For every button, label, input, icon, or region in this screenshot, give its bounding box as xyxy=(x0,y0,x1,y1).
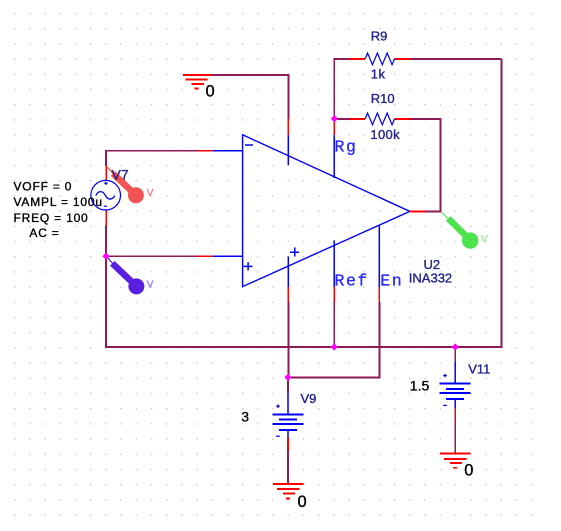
svg-text:AC =: AC = xyxy=(29,226,59,240)
op-amp minus symbol xyxy=(245,144,253,146)
svg-text:100k: 100k xyxy=(370,127,400,142)
op-amp En pin xyxy=(378,226,380,302)
svg-text:0: 0 xyxy=(206,83,215,101)
probe marker V (green, output) xyxy=(442,212,488,248)
svg-text:V11: V11 xyxy=(468,362,490,377)
svg-text:1.5: 1.5 xyxy=(410,378,430,394)
junction node B (Rg / R10) xyxy=(331,115,338,122)
op-amp U2 triangle xyxy=(243,135,410,287)
wire V7 top to minus input xyxy=(106,151,198,166)
op-amp plus input pin xyxy=(198,255,243,257)
svg-text:0: 0 xyxy=(298,493,307,511)
svg-text:VAMPL = 100u: VAMPL = 100u xyxy=(14,195,103,209)
svg-text:INA332: INA332 xyxy=(409,271,452,286)
op-amp plus symbol xyxy=(244,262,253,270)
junction node A (V7 out / + input) xyxy=(102,253,109,260)
resistor R10 xyxy=(350,113,411,125)
op-amp V+ plus symbol xyxy=(290,248,299,257)
wire bottom rail right part xyxy=(334,59,501,347)
svg-text:Rg: Rg xyxy=(335,137,358,156)
wire R10 left stub horizontal xyxy=(334,118,350,120)
op-amp V+ bottom pin xyxy=(287,257,289,303)
wire R10 right to output corner xyxy=(411,119,441,211)
svg-text:R10: R10 xyxy=(371,91,395,106)
ground GND0 top xyxy=(183,75,212,89)
ground GND V9 xyxy=(273,484,303,498)
svg-text:0: 0 xyxy=(464,462,473,480)
wire Ref pin down to rail xyxy=(333,302,335,347)
wire V9 junction down to battery xyxy=(287,377,289,392)
wire V11 bottom to ground xyxy=(454,421,456,453)
svg-text:1k: 1k xyxy=(371,66,386,81)
junction node C (rail / Ref) xyxy=(331,343,338,350)
wire En pin down and elbow to V9 junction xyxy=(288,302,379,377)
wire V9 bottom to ground xyxy=(287,451,289,485)
svg-text:VOFF = 0: VOFF = 0 xyxy=(14,180,73,194)
wire output apex to green probe corner xyxy=(426,210,440,212)
svg-text:V: V xyxy=(147,188,154,199)
wire R9 left stub horizontal xyxy=(334,58,350,60)
resistor R9 xyxy=(350,53,411,65)
svg-text:3: 3 xyxy=(241,408,249,424)
wire V7 bottom to junction to plus input xyxy=(106,226,198,257)
battery V9 xyxy=(273,392,304,450)
probe marker V (violet, + input) xyxy=(106,256,154,295)
V7 property text block xyxy=(14,180,103,241)
svg-text:V: V xyxy=(481,233,488,245)
svg-text:R9: R9 xyxy=(371,28,388,43)
source V7 xyxy=(91,166,121,226)
wire left vertical junction down to bottom rail xyxy=(106,256,334,347)
op-amp minus input pin xyxy=(198,150,243,152)
probe marker V (red, V7 output) xyxy=(106,166,153,203)
wire V+ pin down to V9 junction xyxy=(287,302,289,377)
svg-text:Ref En: Ref En xyxy=(335,272,404,291)
svg-text:V7: V7 xyxy=(112,166,129,182)
op-amp V- top pin xyxy=(287,119,289,165)
wire top rail from ground 0 to V- supply corner xyxy=(211,75,288,119)
battery V11 xyxy=(440,362,471,421)
wire V11 junction down to battery xyxy=(454,347,456,362)
junction node E (V9 / En elbow) xyxy=(284,374,291,381)
svg-text:V: V xyxy=(147,279,154,290)
svg-text:FREQ = 100: FREQ = 100 xyxy=(14,211,89,225)
op-amp output pin xyxy=(410,210,426,212)
op-amp Ref pin xyxy=(333,240,335,302)
op-amp Rg pin xyxy=(333,119,335,178)
wire R9 right to right vertical xyxy=(411,58,502,60)
ground GND V11 xyxy=(440,453,470,467)
svg-text:V9: V9 xyxy=(301,391,317,406)
junction node D (rail / V11) xyxy=(452,343,459,350)
wire R9 left down to Rg junction xyxy=(333,59,335,119)
